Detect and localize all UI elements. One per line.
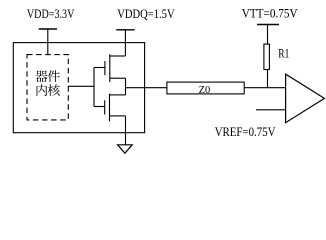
resistor R1: [264, 44, 270, 69]
transistor Q1: [105, 54, 126, 82]
svg-text:VREF=0.75V: VREF=0.75V: [215, 125, 276, 139]
label he (core text): [48, 84, 60, 96]
wire VREF input: [256, 109, 286, 111]
wire core to gates: [68, 85, 94, 87]
wire Q2 gate lead: [94, 106, 105, 108]
wire R1 to line: [267, 70, 269, 88]
ground: [118, 145, 133, 153]
wire Q1 gate lead: [94, 67, 105, 69]
svg-text:VDDQ=1.5V: VDDQ=1.5V: [117, 7, 174, 21]
wire Z0 to comparator: [244, 87, 285, 89]
device box: [13, 43, 144, 133]
transmission line Z0: [167, 82, 244, 94]
op-amp U1: [286, 74, 325, 123]
wire drain junction: [125, 78, 127, 95]
power symbol VDD: [39, 29, 57, 55]
power symbol VDDQ: [116, 30, 134, 56]
dashed core box: [27, 55, 68, 120]
label nei (core text): [37, 84, 48, 96]
wire gate bus: [93, 68, 95, 107]
svg-text:VTT=0.75V: VTT=0.75V: [242, 6, 298, 20]
wire source to ground: [125, 116, 127, 145]
transistor Q2: [105, 94, 126, 122]
svg-text:R1: R1: [278, 46, 289, 60]
svg-text:Z0: Z0: [199, 84, 211, 96]
label qi (core text): [35, 71, 47, 83]
wire output to Z0: [126, 87, 167, 89]
svg-text:VDD=3.3V: VDD=3.3V: [27, 7, 75, 21]
label jian (core text): [48, 70, 60, 82]
power symbol VTT: [257, 25, 279, 45]
